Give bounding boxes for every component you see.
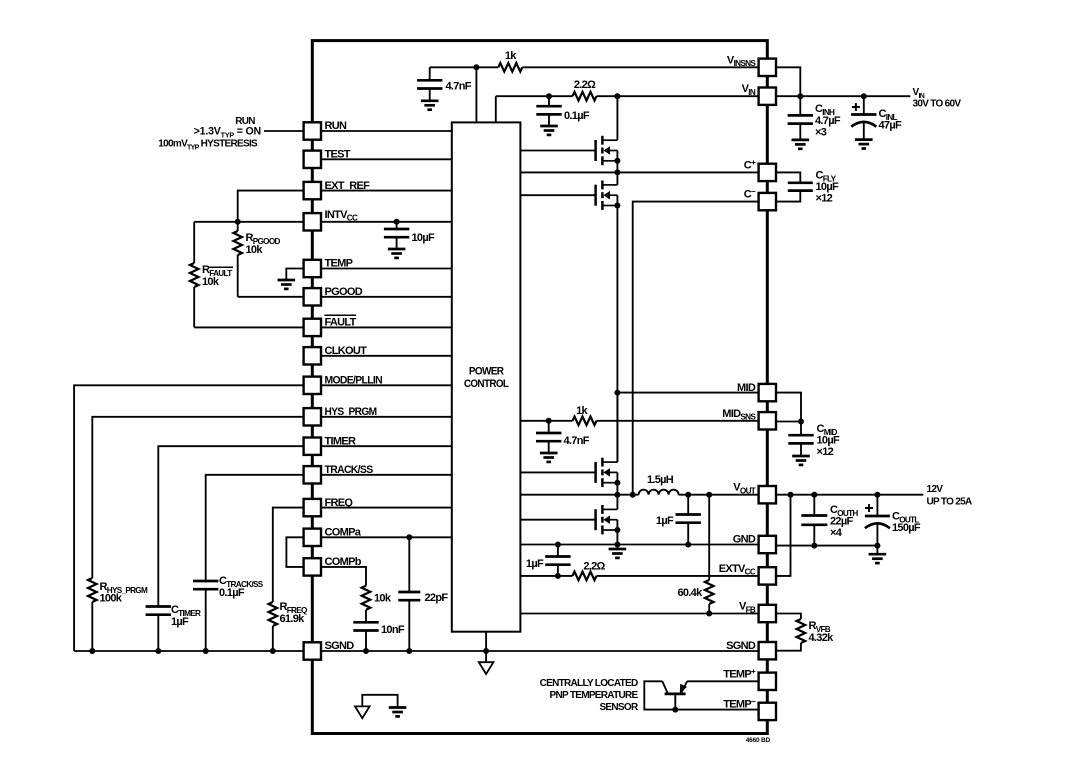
capacitor 22pF — [408, 537, 410, 592]
pin TEST — [304, 151, 321, 168]
svg-text:×3: ×3 — [815, 127, 827, 139]
ground CMID — [792, 455, 810, 458]
wire RUN to power control — [321, 130, 452, 132]
svg-text:MODE/PLLIN: MODE/PLLIN — [325, 375, 383, 387]
capacitor CINL 47uF polarized — [863, 96, 865, 114]
wire VFB external loop RVFB — [776, 614, 801, 620]
earth ground note symbol — [389, 706, 407, 709]
svg-text:2.2Ω: 2.2Ω — [574, 79, 596, 91]
pin C- — [759, 193, 776, 210]
svg-text:FREQ: FREQ — [325, 497, 354, 509]
capacitor 4.7nF (top) — [429, 67, 431, 80]
svg-text:CLKOUT: CLKOUT — [325, 345, 368, 357]
svg-text:4.32k: 4.32k — [809, 632, 835, 644]
wire SW line — [520, 494, 638, 496]
svg-text:PGOOD: PGOOD — [325, 286, 363, 298]
svg-text:MIDSNS: MIDSNS — [722, 408, 756, 422]
node 4.7nF MIDSNS tap — [546, 418, 552, 424]
svg-text:UP TO 25A: UP TO 25A — [927, 497, 972, 508]
svg-text:10k: 10k — [246, 244, 264, 256]
node M1 drain tap — [614, 93, 620, 99]
resistor RFAULT 10k — [193, 222, 195, 263]
node TRACK/SGND — [203, 648, 209, 654]
capacitor COUTH 22uF x4 — [813, 495, 815, 516]
svg-text:TEMP−: TEMP− — [723, 697, 756, 711]
svg-text:RUN: RUN — [325, 120, 347, 132]
svg-text:12V: 12V — [927, 484, 944, 495]
wire M2 drain riser — [616, 172, 618, 185]
inductor 1.5uH — [639, 490, 679, 495]
svg-text:SGND: SGND — [726, 640, 756, 652]
node 1k/power-control riser — [473, 64, 479, 70]
svg-text:FAULT: FAULT — [325, 317, 357, 329]
node PNP base/TEMP- — [672, 707, 678, 713]
svg-text:VIN: VIN — [742, 83, 756, 97]
node 1uF out top — [685, 492, 691, 498]
capacitor CMID 10uF x12 — [800, 422, 802, 436]
pin COMPa — [304, 529, 321, 546]
svg-text:EXT_REF: EXT_REF — [325, 180, 371, 192]
svg-text:SGND: SGND — [325, 640, 355, 652]
wire PNP base — [674, 694, 676, 710]
pin CLKOUT — [304, 347, 321, 364]
svg-text:1k: 1k — [505, 50, 517, 62]
wire TEST to power control — [321, 158, 452, 160]
resistor 60.4k — [708, 495, 710, 580]
node TIMER/SGND — [155, 648, 161, 654]
wire MIDSNS internal — [520, 420, 572, 422]
wire MODE/PLLIN to power control — [321, 384, 452, 386]
svg-text:VFB: VFB — [739, 601, 756, 615]
node divider top — [706, 492, 712, 498]
signal ground note symbol — [355, 706, 370, 718]
wire RPGOOD to PGOOD pin — [238, 296, 304, 298]
wire MID external — [776, 393, 801, 422]
wire PGOOD to power control — [321, 296, 452, 298]
pin MODE/PLLIN — [304, 377, 321, 394]
svg-text:10nF: 10nF — [381, 624, 405, 636]
pin FAULT — [304, 319, 321, 336]
wire MID rail — [616, 206, 618, 463]
wire M1 drain riser — [616, 96, 618, 140]
svg-text:TIMER: TIMER — [325, 435, 356, 447]
pin RUN — [304, 122, 321, 139]
svg-text:0.1µF: 0.1µF — [564, 110, 590, 122]
pin TEMP — [304, 260, 321, 277]
svg-text:10µF: 10µF — [412, 232, 435, 244]
wire RUN lead — [264, 130, 304, 132]
transistor M2 — [596, 181, 618, 210]
node C+ line — [614, 169, 620, 175]
wire VIN external — [776, 95, 910, 97]
svg-text:22pF: 22pF — [425, 592, 449, 604]
svg-text:100k: 100k — [100, 593, 123, 605]
node M1 source — [614, 158, 620, 164]
svg-text:TEMP: TEMP — [325, 258, 353, 270]
wire GND external — [776, 545, 877, 547]
ground CINH — [792, 139, 810, 142]
pin GND — [759, 536, 776, 553]
wire COMPa to power control — [321, 536, 452, 538]
capacitor 10uF INTVCC — [396, 222, 398, 229]
svg-text:4.7µF: 4.7µF — [815, 115, 841, 127]
node CMID — [798, 419, 804, 425]
node 10nF/SGND — [363, 648, 369, 654]
wire RFAULT to FAULT pin — [194, 326, 303, 328]
pin TIMER — [304, 438, 321, 455]
wire FREQ to power control — [321, 507, 452, 509]
wire EXTVCC internal — [520, 575, 572, 577]
pin FREQ — [304, 499, 321, 516]
svg-text:10µF: 10µF — [817, 435, 840, 447]
svg-text:PNP TEMPERATURE: PNP TEMPERATURE — [549, 690, 638, 701]
wire M4 drain riser — [616, 495, 618, 510]
svg-text:×12: ×12 — [816, 193, 833, 205]
wire SGND bus — [74, 650, 759, 652]
svg-text:VINSNS: VINSNS — [727, 54, 756, 68]
svg-text:47µF: 47µF — [879, 120, 902, 132]
wire TRACK/SS to power control — [321, 474, 452, 476]
svg-text:GND: GND — [733, 534, 756, 546]
capacitor 10nF — [353, 621, 378, 624]
svg-text:×12: ×12 — [817, 446, 834, 458]
capacitor 4.7nF (MIDSNS) — [548, 421, 550, 433]
pin VIN — [759, 88, 776, 105]
wire MID line — [617, 392, 758, 394]
resistor 2.2ohm (top) — [573, 92, 597, 101]
node M2 source — [614, 203, 620, 209]
node 1uF EXTVCC top — [555, 542, 561, 548]
svg-text:4660 BD: 4660 BD — [746, 737, 771, 744]
svg-text:POWER: POWER — [469, 366, 504, 378]
svg-text:HYS_PRGM: HYS_PRGM — [325, 406, 377, 418]
wire CLKOUT to power control — [321, 355, 452, 357]
wire INTVCC rail — [194, 221, 303, 223]
wire riser to power control top — [475, 67, 477, 122]
floating ground tie note — [362, 695, 397, 708]
svg-text:TEST: TEST — [325, 149, 351, 161]
wire HYS_PRGM down — [92, 417, 303, 578]
node M4 source — [614, 527, 620, 533]
wire VFB internal — [520, 613, 758, 615]
svg-text:61.9k: 61.9k — [280, 613, 306, 625]
wire EXTVCC riser — [776, 495, 791, 576]
node M3 source — [614, 480, 620, 486]
pin VFB — [759, 605, 776, 622]
resistor 1k (top) — [498, 63, 522, 72]
capacitor 1uF out — [687, 495, 689, 515]
svg-text:0.1µF: 0.1µF — [219, 587, 245, 599]
wire MIDSNS external — [776, 421, 801, 423]
transistor M3 — [596, 458, 618, 487]
wire FREQ down — [273, 508, 304, 602]
wire COMPa-COMPb strap — [286, 537, 303, 567]
svg-text:C+: C+ — [744, 158, 756, 172]
capacitor CFLY 10uF x12 — [776, 172, 800, 182]
node COUTH bottom — [811, 543, 817, 549]
transistor M4 — [596, 505, 618, 534]
pin INTVCC — [304, 213, 321, 230]
pin HYS_PRGM — [304, 408, 321, 425]
svg-text:CENTRALLY LOCATED: CENTRALLY LOCATED — [540, 678, 638, 689]
wire M3 drain riser — [616, 393, 618, 463]
pin EXT_REF — [304, 182, 321, 199]
node INTVCC bypass tap — [394, 219, 400, 225]
wire COMPb network — [321, 567, 366, 586]
node COUTL top — [874, 492, 880, 498]
pin MIDSNS — [759, 412, 776, 429]
svg-text:COMPb: COMPb — [325, 556, 362, 568]
transistor M2 gate wire — [520, 194, 595, 196]
svg-text:TEMP+: TEMP+ — [723, 667, 756, 681]
pin SGND — [759, 642, 776, 659]
wire C+ line — [520, 171, 758, 173]
wire TEMP to ground — [286, 269, 303, 281]
capacitor CINH 4.7uF x3 — [799, 96, 801, 115]
capacitor 1uF EXTVCC — [557, 545, 559, 557]
resistor RHYS_PRGM 100k — [88, 578, 97, 602]
ground 4.7nF top — [421, 99, 439, 102]
wire TRACK/SS down — [206, 475, 304, 581]
ground CINL — [855, 138, 873, 141]
node SW/C- — [630, 492, 636, 498]
wire PNP collector strap — [644, 681, 758, 709]
svg-text:10k: 10k — [202, 276, 220, 288]
wire M1 source to C+ line — [616, 161, 618, 173]
signal ground under power control — [479, 662, 494, 674]
pin SGND — [304, 642, 321, 659]
wire C- riser — [633, 202, 759, 495]
node CINL — [861, 93, 867, 99]
node SW/M4 — [614, 492, 620, 498]
node 1uF EXTVCC bottom — [555, 573, 561, 579]
svg-text:4.7nF: 4.7nF — [446, 80, 472, 92]
capacitor CTIMER 1uF — [146, 605, 171, 608]
pin EXTVCC — [759, 567, 776, 584]
ground 4.7nF MIDSNS — [540, 452, 558, 455]
svg-text:10µF: 10µF — [816, 181, 839, 193]
svg-text:1.5µH: 1.5µH — [647, 474, 674, 486]
capacitor 0.1uF — [548, 96, 550, 106]
pin VINSNS — [759, 59, 776, 76]
wire TIMER down — [158, 446, 303, 606]
svg-text:1µF: 1µF — [526, 558, 544, 570]
svg-text:2.2Ω: 2.2Ω — [583, 561, 605, 573]
pin MID — [759, 384, 776, 401]
pin COMPb — [304, 558, 321, 575]
svg-text:×4: ×4 — [830, 527, 843, 539]
resistor RFREQ 61.9k — [269, 602, 278, 626]
svg-text:1µF: 1µF — [656, 515, 674, 527]
svg-text:10k: 10k — [374, 593, 392, 605]
svg-text:EXTVCC: EXTVCC — [719, 563, 756, 577]
svg-text:VOUT: VOUT — [733, 482, 756, 496]
pin TRACK/SS — [304, 466, 321, 483]
pin VOUT — [759, 486, 776, 503]
wire 1k top net — [430, 66, 499, 68]
svg-text:COMPa: COMPa — [325, 527, 362, 539]
transistor M1 gate wire — [520, 150, 595, 152]
svg-text:SENSOR: SENSOR — [599, 702, 639, 713]
ground 10uF INTVCC — [388, 248, 406, 251]
node INTVCC/RPGOOD — [235, 219, 241, 225]
wire M3 source to SW — [616, 483, 618, 495]
node PC bottom / SGND — [485, 632, 487, 663]
wire GND line — [520, 544, 758, 546]
wire VOUT external — [776, 494, 923, 496]
node 0.1uF tap — [546, 93, 552, 99]
svg-text:22µF: 22µF — [830, 516, 853, 528]
resistor RVFB 4.32k — [797, 619, 806, 643]
svg-text:60.4k: 60.4k — [677, 587, 703, 599]
node COUTH top — [811, 492, 817, 498]
wire FAULT to power control — [321, 326, 452, 328]
node M4/GND — [614, 542, 620, 548]
wire HYS_PRGM to power control — [321, 416, 452, 418]
transistor M4 gate wire — [520, 519, 595, 521]
resistor RPGOOD 10k — [237, 222, 239, 231]
capacitor COUTL 150uF polarized — [876, 495, 878, 516]
node divider/VFB — [706, 611, 712, 617]
svg-text:MID: MID — [737, 382, 756, 394]
node CINH — [797, 93, 803, 99]
ground 0.1uF — [540, 125, 558, 128]
node EXTVCC/VOUT — [788, 492, 794, 498]
capacitor CTRACK/SS 0.1uF — [193, 580, 218, 583]
power control block — [452, 122, 521, 631]
svg-text:1k: 1k — [576, 405, 588, 417]
wire VOUT line internal — [679, 494, 759, 496]
wire EXT_REF to power control — [321, 190, 452, 192]
pin TEMP- — [759, 703, 776, 720]
svg-text:1µF: 1µF — [171, 616, 189, 628]
svg-text:>1.3VTYP = ON: >1.3VTYP = ON — [194, 126, 261, 140]
node COMPa/22pF — [406, 534, 412, 540]
transistor Q1 PNP sensor — [687, 680, 759, 682]
node 1uF out bottom — [685, 542, 691, 548]
wire TEMP to power control — [321, 268, 452, 270]
svg-text:C−: C− — [744, 187, 756, 201]
svg-text:TRACK/SS: TRACK/SS — [325, 464, 373, 476]
wire 2.2ohm vin net — [495, 96, 497, 122]
node HYS/SGND — [89, 648, 95, 654]
ground COUTL — [869, 553, 887, 556]
node COUTL bottom — [874, 543, 880, 549]
svg-text:INTVCC: INTVCC — [325, 209, 358, 223]
resistor 1k (MIDSNS) — [573, 417, 597, 426]
wire TIMER to power control — [321, 445, 452, 447]
transistor M3 gate wire — [520, 471, 595, 473]
wire VINSNS riser — [776, 67, 800, 96]
pin C+ — [759, 164, 776, 181]
wire M4 source to GND — [616, 530, 618, 545]
svg-text:4.7nF: 4.7nF — [564, 435, 590, 447]
transistor M1 — [596, 136, 618, 165]
IC U1 outline — [312, 41, 767, 734]
svg-text:100mVTYP HYSTERESIS: 100mVTYP HYSTERESIS — [158, 139, 258, 152]
svg-text:150µF: 150µF — [892, 522, 921, 534]
resistor 10k COMPb — [362, 586, 371, 610]
node MID line tap — [614, 390, 620, 396]
ground power stage — [616, 545, 618, 550]
wire MODE/PLLIN to SGND bus — [74, 385, 304, 651]
ground TEMP — [278, 279, 296, 282]
svg-text:CONTROL: CONTROL — [464, 378, 509, 390]
pin TEMP+ — [759, 673, 776, 690]
wire EXT_REF to INTVCC node — [238, 191, 304, 222]
node FREQ/SGND — [270, 648, 276, 654]
svg-text:30V TO 60V: 30V TO 60V — [913, 99, 962, 110]
node 22pF/SGND — [406, 648, 412, 654]
wire INTVCC to power control — [321, 221, 452, 223]
resistor 2.2ohm (EXTVCC) — [573, 572, 597, 581]
pin PGOOD — [304, 288, 321, 305]
